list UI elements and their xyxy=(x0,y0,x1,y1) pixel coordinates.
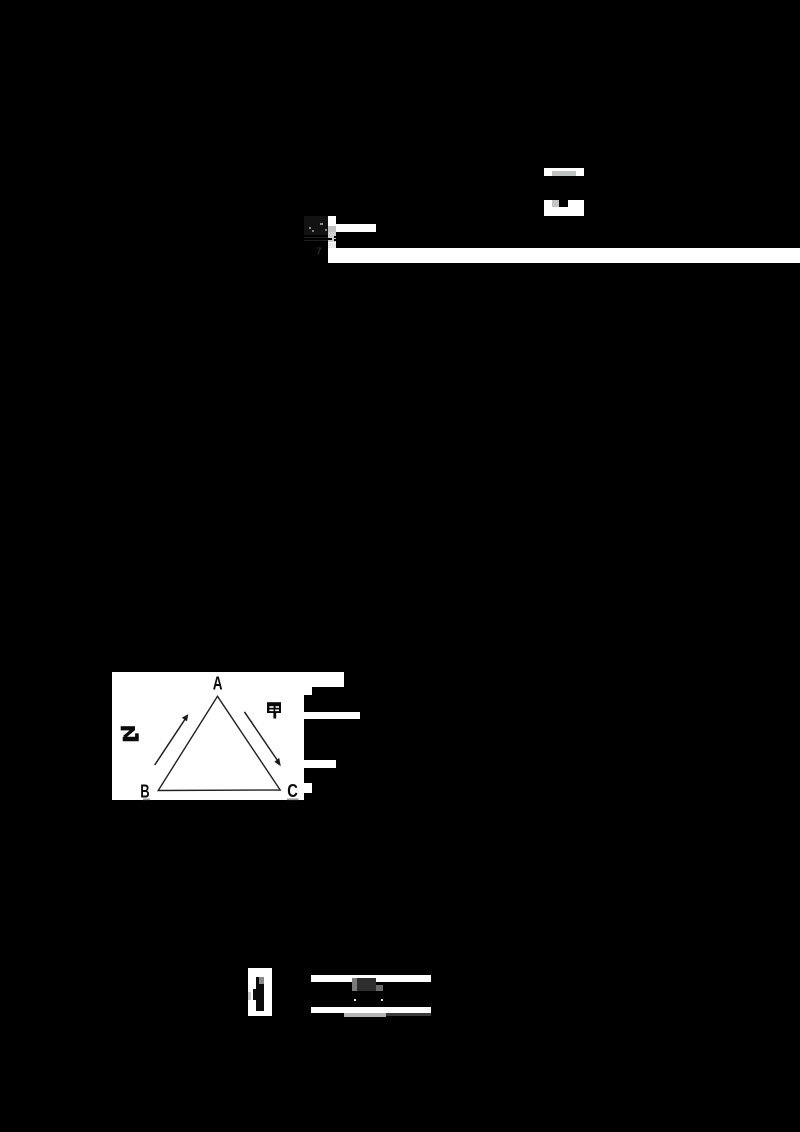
lighter gray block right xyxy=(376,985,384,991)
bottom equation bottom bar xyxy=(311,1007,431,1013)
strip B xyxy=(304,712,360,719)
top-right white bar lower xyxy=(544,200,584,217)
triangle diagram svg xyxy=(112,672,362,802)
diagram white box xyxy=(112,672,304,801)
wide white band (equation line 2) xyxy=(328,248,800,264)
dim strip continuation xyxy=(386,1013,431,1016)
bottom box glyph column xyxy=(256,977,264,1011)
box left gray strip xyxy=(248,992,251,1000)
bottom equation top bar xyxy=(311,975,431,982)
strip D xyxy=(304,783,312,793)
glyph left bump xyxy=(253,989,256,1000)
arrow B to A (left) xyxy=(154,719,184,765)
column gray segment 2 xyxy=(328,232,336,243)
gray square in lower bar xyxy=(552,200,559,207)
fraction bar halo xyxy=(304,237,331,241)
bottom vertical white box xyxy=(248,968,272,1017)
svg-text:C: C xyxy=(287,781,298,801)
top-right white bar upper xyxy=(544,168,584,176)
strip A xyxy=(304,672,344,688)
faint 7 glyph xyxy=(317,246,325,254)
column gray segment 3 xyxy=(328,243,336,248)
black glyph notch in lower bar xyxy=(559,200,568,208)
underline below C xyxy=(287,798,299,800)
light strip below bottom bar xyxy=(344,1013,386,1016)
label jia (top right) drawn xyxy=(267,702,281,718)
arrow A to C (right) xyxy=(244,711,278,761)
top white bar (equation line 1) xyxy=(336,224,375,232)
white specks xyxy=(354,999,356,1001)
fraction bar xyxy=(304,238,332,240)
white column right of fraction xyxy=(328,216,336,248)
svg-text:A: A xyxy=(212,672,222,693)
approx-equal marks xyxy=(334,236,337,238)
dark gray block over top bar xyxy=(352,978,358,991)
strip C xyxy=(304,760,336,768)
triangle ABC xyxy=(158,696,280,790)
label yi (left) drawn xyxy=(120,728,138,739)
glyph gray top xyxy=(259,977,263,984)
strip A2 xyxy=(304,687,312,695)
gray strip in upper bar xyxy=(552,171,576,176)
column gray segment 1 xyxy=(328,226,336,232)
underline below B xyxy=(143,798,150,800)
fraction numerator gray panel xyxy=(304,216,328,235)
numerator digit specks xyxy=(309,227,311,229)
